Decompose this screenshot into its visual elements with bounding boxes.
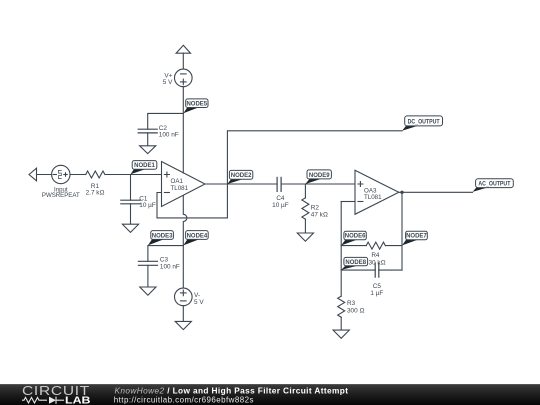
svg-text:5 V: 5 V: [194, 299, 204, 306]
svg-text:R2: R2: [311, 205, 320, 212]
wire source to R1: [70, 174, 86, 176]
svg-text:5 V: 5 V: [163, 79, 173, 86]
wire R1 to op-amp + input (through NODE1 junction): [105, 174, 162, 176]
svg-text:TL081: TL081: [171, 185, 189, 192]
capacitor C4: [277, 177, 281, 191]
wire OA3 - input stub: [341, 201, 355, 203]
ground below C1: [122, 224, 138, 232]
wire V- source to ground: [182, 306, 184, 322]
label V- 5V: [194, 292, 204, 306]
footer title line: [114, 385, 349, 404]
wire C5 to output rail: [379, 269, 402, 271]
svg-text:NODE7: NODE7: [406, 234, 427, 240]
svg-text:1 µF: 1 µF: [370, 290, 383, 297]
resistor R4: [366, 242, 385, 249]
wire C3 to ground: [147, 265, 149, 287]
svg-text:TL081: TL081: [364, 194, 382, 201]
label Input PWSREPEAT: [42, 186, 80, 199]
op-amp OA1: [162, 162, 206, 207]
wire C4 to OA3 + input (through NODE9 junction): [281, 183, 355, 185]
svg-text:300 Ω: 300 Ω: [347, 308, 364, 315]
wire V+ source down to OA1 V+ pin (junction with C2 at y=113.4): [182, 87, 184, 173]
wire NODE3/NODE4 row: [148, 246, 183, 262]
svg-text:AC_OUTPUT: AC_OUTPUT: [478, 182, 510, 188]
resistor R2: [302, 198, 309, 219]
svg-text:DC_OUTPUT: DC_OUTPUT: [408, 119, 440, 125]
FOOTER: [0, 384, 540, 405]
wire OA1 output to C4 (junction NODE2 at x=227.4): [205, 183, 277, 185]
node NODE4: [183, 231, 208, 246]
wire R2 to ground: [304, 219, 306, 233]
node NODE5: [183, 99, 208, 113]
svg-text:LAB: LAB: [65, 396, 91, 405]
label C3 100nF: [160, 257, 180, 271]
svg-text:100 nF: 100 nF: [159, 132, 179, 139]
wire DC output: up from output junction then right: [227, 131, 402, 184]
capacitor C5: [375, 263, 379, 277]
svg-text:V-: V-: [194, 292, 200, 299]
svg-text:2.7 kΩ: 2.7 kΩ: [86, 189, 105, 196]
svg-text:100 nF: 100 nF: [160, 263, 180, 270]
svg-text:PWSREPEAT: PWSREPEAT: [42, 192, 80, 199]
wire R4 to output rail: [385, 245, 402, 247]
label C5 1uF: [370, 283, 383, 297]
source V+ 5V: [175, 69, 193, 87]
node NODE9: [305, 170, 331, 184]
capacitor C2: [138, 129, 157, 133]
label OA3 TL081: [364, 188, 382, 201]
resistor R1: [86, 171, 105, 178]
wire port to source V1: [37, 174, 52, 176]
OA1 V- pin wire with hop over feedback, down to V- source: [183, 196, 187, 289]
wire node1 junction down to C1: [130, 175, 132, 201]
ground below V-: [175, 321, 191, 329]
CircuitLab logo text CIRCUIT: [22, 384, 90, 398]
component value labels: [42, 72, 386, 314]
footer bar: [0, 384, 540, 405]
svg-text:NODE4: NODE4: [187, 233, 208, 239]
node NODE3: [148, 231, 174, 246]
input port flag: [29, 168, 37, 181]
label C2 100nF: [159, 125, 179, 139]
label R4 30k: [369, 252, 386, 266]
label V+ 5V: [163, 72, 173, 86]
source V1 Input PWSREPEAT: [52, 165, 70, 183]
ground below C3: [140, 287, 156, 295]
op-amp OA3: [355, 170, 399, 214]
capacitor C3: [138, 261, 157, 265]
net flag DC_OUTPUT: [402, 116, 443, 131]
svg-text:10 µF: 10 µF: [272, 202, 289, 209]
svg-text:NODE9: NODE9: [309, 173, 330, 179]
ground below C2: [140, 146, 156, 154]
wire power flag to V+ source: [182, 53, 184, 69]
wire output rail down (junction NODE7): [401, 192, 403, 270]
label C4 10uF: [272, 195, 289, 209]
wire C2 to ground: [147, 133, 149, 146]
svg-text:NODE3: NODE3: [152, 233, 173, 239]
wire NODE8 row to C5: [341, 269, 375, 271]
svg-text:NODE5: NODE5: [186, 101, 207, 107]
svg-text:NODE8: NODE8: [345, 260, 366, 266]
label C1 10uF: [139, 195, 156, 209]
svg-text:R4: R4: [371, 252, 380, 259]
capacitor C1: [121, 200, 140, 204]
wire R3 to ground: [340, 317, 342, 330]
junction dot OA3 output: [400, 191, 403, 194]
wire OA3 output to AC_OUTPUT flag: [399, 191, 473, 193]
svg-text:http://circuitlab.com/cr696ebf: http://circuitlab.com/cr696ebfw882s: [114, 395, 254, 404]
net flag AC_OUTPUT: [473, 179, 514, 192]
ground below R2: [297, 233, 313, 241]
node NODE8: [341, 257, 367, 270]
ground below R3: [333, 330, 349, 338]
label R3 300ohm: [347, 300, 364, 315]
wire C1 to ground: [130, 204, 132, 224]
wire OA3 feedback left rail down to R3 (junctions NODE6, NODE8): [340, 202, 342, 297]
label R2 47k: [311, 205, 328, 219]
svg-text:NODE2: NODE2: [231, 173, 252, 179]
wire OA1 feedback: down, left, up to - input: [157, 184, 227, 218]
node NODE2: [227, 170, 252, 184]
svg-text:OA1: OA1: [171, 178, 184, 185]
CircuitLab logo text LAB: [65, 396, 91, 405]
label OA1 TL081: [171, 178, 189, 192]
node name flags: [131, 99, 514, 270]
svg-text:C5: C5: [373, 283, 382, 290]
svg-text:30 kΩ: 30 kΩ: [369, 259, 386, 266]
svg-text:10 µF: 10 µF: [139, 202, 156, 209]
svg-text:NODE1: NODE1: [134, 163, 155, 169]
svg-text:NODE6: NODE6: [345, 234, 366, 240]
wire NODE9 junction down to R2: [304, 184, 306, 198]
wire NODE6 row to R4: [341, 245, 366, 247]
wire C2 tee: [148, 113, 184, 129]
label R1 2.7k: [86, 183, 105, 197]
node NODE7: [402, 231, 427, 245]
V+ power flag: [176, 45, 190, 53]
svg-text:R3: R3: [347, 300, 356, 307]
svg-text:47 kΩ: 47 kΩ: [311, 212, 328, 219]
node NODE6: [341, 231, 366, 245]
CircuitLab logo resistor-diode glyph: [22, 397, 64, 404]
source V- 5V: [175, 288, 193, 306]
resistor R3: [338, 296, 345, 317]
node NODE1: [131, 161, 157, 175]
svg-text:KnowHowe2 / Low and High Pass: KnowHowe2 / Low and High Pass Filter Cir…: [115, 385, 349, 395]
